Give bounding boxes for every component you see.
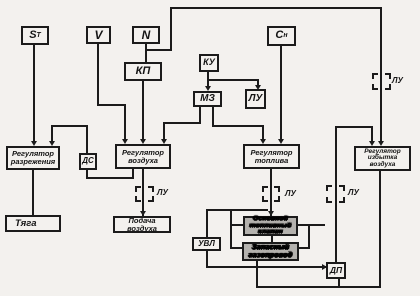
block excess air regulator	[354, 146, 411, 171]
block air regulator	[115, 144, 171, 169]
wire MZ left output to air regulator	[0, 0, 420, 1]
wire fuel regulator through LU2 to main line box	[0, 0, 420, 1]
block CH sensor	[267, 26, 296, 46]
arrow into vacuum regulator from DS	[49, 141, 55, 146]
arrow into vacuum regulator from ST	[31, 141, 37, 146]
label LU4	[392, 76, 403, 85]
arrow into LU	[255, 85, 261, 90]
wire KU to MZ	[0, 0, 420, 1]
block DS sensor	[79, 153, 97, 170]
arrow into air regulator from KP	[140, 139, 146, 144]
block air supply	[113, 216, 171, 233]
wire CH to fuel regulator	[0, 0, 420, 1]
arrow into air regulator from MZ	[161, 139, 167, 144]
wire LU3 to DP	[0, 0, 420, 1]
wire UVL to DP	[0, 0, 420, 1]
block fuel regulator	[243, 144, 300, 169]
dashed logic unit LU1	[135, 186, 154, 202]
block standby fuel line	[242, 242, 299, 261]
wire ST to vacuum regulator	[0, 0, 420, 1]
arrow into MZ	[205, 86, 211, 91]
block DP sensor	[326, 262, 346, 279]
block N sensor	[132, 26, 160, 44]
label LU3	[348, 188, 359, 197]
block UVL	[192, 237, 221, 251]
wire vacuum regulator to draft	[0, 0, 420, 1]
block LU logic unit	[245, 89, 266, 109]
arrow into DP left	[322, 264, 327, 270]
label LU2	[285, 189, 296, 198]
wire KU branch to LU	[0, 0, 420, 1]
arrow into main line box	[268, 211, 274, 216]
arrow into fuel regulator from MZ	[260, 139, 266, 144]
wire N to KP and branch node	[0, 0, 420, 1]
block ST sensor	[21, 26, 49, 45]
block main fuel line	[243, 216, 298, 236]
wire DS top to vacuum regulator	[0, 0, 420, 1]
block vacuum regulator	[6, 146, 60, 170]
wire MZ right output to fuel regulator	[0, 0, 420, 1]
arrow into air regulator from V	[122, 139, 128, 144]
arrow into excess air regulator right input	[378, 141, 384, 146]
dashed logic unit LU3	[326, 185, 345, 203]
arrow into excess air regulator left input	[369, 141, 375, 146]
block KP	[124, 62, 162, 81]
wire DP chain to excess air regulator	[0, 0, 420, 1]
wire V to air regulator	[0, 0, 420, 1]
block draft (Tyaga)	[5, 215, 61, 232]
wire KP to air regulator	[0, 0, 420, 1]
block KU	[199, 54, 219, 72]
wire top rail to LU4	[0, 0, 420, 1]
wire between main and standby boxes	[0, 0, 420, 1]
block V sensor	[86, 26, 111, 44]
wire bottom rail from standby box to excess air regulator	[0, 0, 420, 1]
wire feed rail to UVL and valve brackets	[0, 0, 420, 1]
wire right bracket of valve boxes	[0, 0, 420, 1]
dashed logic unit LU2	[262, 186, 280, 202]
arrow into fuel regulator from CH	[278, 139, 284, 144]
wire DS bottom loop to air regulator	[0, 0, 420, 1]
dashed logic unit LU4	[372, 73, 391, 90]
wire air regulator through LU1 to air supply	[0, 0, 420, 1]
wire LU4 to excess air regulator	[0, 0, 420, 1]
block MZ	[193, 91, 222, 107]
label LU1	[157, 188, 168, 197]
